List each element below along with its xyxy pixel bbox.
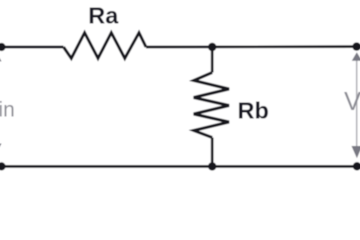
svg-text:Rb: Rb <box>238 98 269 124</box>
svg-text:V: V <box>344 88 360 116</box>
svg-text:Ra: Ra <box>88 2 119 28</box>
svg-text:in: in <box>0 99 15 122</box>
